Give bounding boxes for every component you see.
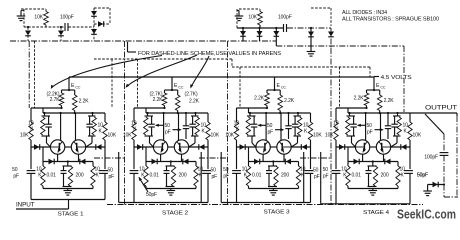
svg-text:2.7K: 2.7K — [50, 97, 61, 103]
svg-text:2.2K: 2.2K — [189, 99, 200, 105]
svg-text:pF: pF — [268, 130, 274, 136]
svg-text:10K: 10K — [325, 133, 334, 139]
svg-text:pF: pF — [314, 174, 320, 180]
svg-text:CC: CC — [380, 86, 385, 90]
svg-text:2.2K: 2.2K — [354, 96, 365, 102]
svg-text:pF: pF — [212, 174, 218, 180]
svg-text:50: 50 — [108, 168, 114, 174]
svg-text:50: 50 — [367, 123, 373, 129]
svg-text:10K: 10K — [313, 133, 322, 139]
svg-text:50: 50 — [165, 123, 171, 129]
svg-text:OUTPUT: OUTPUT — [425, 105, 457, 112]
svg-text:CC: CC — [178, 86, 183, 90]
svg-text:4.5 VOLTS: 4.5 VOLTS — [381, 75, 413, 81]
svg-text:2.2K: 2.2K — [153, 97, 164, 103]
svg-text:200: 200 — [179, 173, 187, 179]
svg-text:STAGE 2: STAGE 2 — [162, 211, 188, 217]
svg-text:pF: pF — [323, 174, 329, 180]
svg-text:200: 200 — [281, 173, 289, 179]
svg-text:50: 50 — [323, 167, 329, 173]
svg-text:2.2K: 2.2K — [79, 99, 90, 105]
svg-text:0.01: 0.01 — [252, 173, 262, 179]
svg-text:STAGE 3: STAGE 3 — [264, 210, 290, 216]
svg-text:SeekIC.com: SeekIC.com — [397, 207, 456, 221]
svg-text:(2.7K): (2.7K) — [185, 92, 198, 98]
svg-text:0.01: 0.01 — [352, 173, 362, 179]
svg-text:50: 50 — [267, 123, 273, 129]
svg-text:10K: 10K — [248, 15, 257, 21]
svg-text:ALL DIODES : IN34: ALL DIODES : IN34 — [342, 10, 387, 16]
svg-text:STAGE 1: STAGE 1 — [58, 212, 84, 218]
svg-text:pF: pF — [109, 174, 115, 180]
svg-text:200: 200 — [381, 173, 389, 179]
svg-text:10K: 10K — [225, 133, 234, 139]
svg-text:2.2K: 2.2K — [254, 96, 265, 102]
svg-text:50pF: 50pF — [146, 192, 157, 198]
svg-text:50pF: 50pF — [417, 173, 428, 179]
svg-text:50: 50 — [223, 167, 229, 173]
svg-text:100pF: 100pF — [60, 15, 74, 21]
svg-text:2.2K: 2.2K — [284, 98, 295, 104]
svg-text:INPUT: INPUT — [16, 203, 35, 209]
svg-text:0.01: 0.01 — [47, 173, 57, 179]
svg-text:0.01: 0.01 — [150, 173, 160, 179]
svg-text:10K: 10K — [20, 133, 29, 139]
svg-text:STAGE 4: STAGE 4 — [363, 210, 389, 216]
svg-text:10K: 10K — [34, 15, 43, 21]
svg-text:ALL TRANSISTORS : SPRAGUE SB10: ALL TRANSISTORS : SPRAGUE SB100 — [342, 17, 439, 23]
svg-text:CC: CC — [75, 86, 80, 90]
svg-text:100pF: 100pF — [278, 15, 292, 21]
svg-text:2.2K: 2.2K — [384, 98, 395, 104]
svg-text:10K: 10K — [108, 133, 117, 139]
svg-text:pF: pF — [223, 174, 229, 180]
svg-text:pF: pF — [13, 174, 19, 180]
svg-text:200: 200 — [76, 173, 84, 179]
svg-text:pF: pF — [165, 130, 171, 136]
svg-text:10K: 10K — [211, 133, 220, 139]
svg-text:50: 50 — [12, 167, 18, 173]
svg-text:50: 50 — [211, 168, 217, 174]
svg-text:CC: CC — [281, 86, 286, 90]
svg-text:100pF: 100pF — [424, 155, 438, 161]
svg-text:pF: pF — [367, 130, 373, 136]
svg-text:50: 50 — [313, 168, 319, 174]
svg-text:10K: 10K — [413, 133, 422, 139]
